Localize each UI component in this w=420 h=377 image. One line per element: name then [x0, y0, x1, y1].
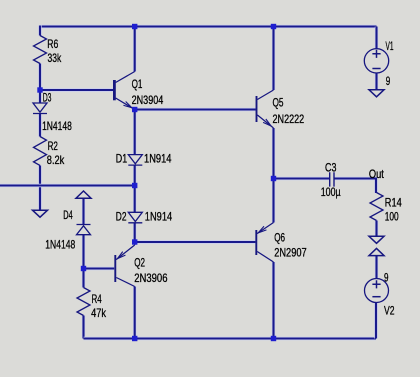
diode D2 1N914 [128, 212, 142, 223]
ground at D4 (rotated) [76, 191, 91, 198]
svg-text:V2: V2 [384, 304, 395, 318]
ground at R2 [33, 210, 48, 217]
wire Q1 emitter to D1 [133, 110, 136, 155]
wire Q6 collector [272, 262, 275, 339]
wire V2 top to ground [375, 256, 378, 279]
wire D2 to node B [133, 223, 136, 242]
svg-text:Q2: Q2 [134, 255, 145, 269]
node Q6 collector / bottom rail [271, 336, 276, 341]
wire input line [0, 184, 135, 187]
wire V1 bottom to ground [375, 73, 378, 90]
svg-text:2N3904: 2N3904 [132, 93, 164, 107]
svg-text:9: 9 [384, 270, 389, 284]
ground at R14 [369, 236, 384, 243]
resistor R6 33k [34, 36, 47, 64]
wire Q6 base [135, 240, 256, 243]
resistor R2 8.2k [34, 137, 47, 166]
svg-text:1N4148: 1N4148 [42, 119, 72, 133]
transistor Q6 2N2907 PNP [256, 223, 273, 263]
diode D4 1N4148 [77, 225, 91, 235]
svg-text:R4: R4 [92, 292, 102, 306]
wire V2 bottom lead [374, 302, 377, 338]
node Q1 emitter / D1 / Q5 base [132, 107, 137, 112]
wire R4 to bottom rail [82, 316, 85, 339]
node D3 / Q1 base [37, 87, 42, 92]
svg-text:C3: C3 [325, 161, 337, 175]
transistor Q5 2N2222 NPN [257, 90, 274, 128]
wire node A to R4 [82, 269, 85, 288]
node top rail / Q1 collector [132, 24, 137, 29]
wire D4 to node A [82, 235, 85, 269]
node top rail / Q5 collector [271, 24, 276, 29]
diode D1 1N914 [128, 155, 142, 166]
resistor R4 47k [77, 288, 90, 316]
transistor Q1 2N3904 NPN [114, 72, 134, 110]
svg-text:D3: D3 [43, 91, 52, 105]
wire Q1 collector [133, 27, 136, 72]
svg-text:Q1: Q1 [132, 77, 143, 91]
wire R6 bottom to D3 [38, 64, 41, 104]
svg-text:47k: 47k [91, 306, 107, 320]
resistor R14 100 [370, 193, 383, 221]
voltage source V2 9V [365, 279, 389, 303]
svg-text:Out: Out [369, 167, 384, 181]
wire R6 top lead [38, 26, 41, 36]
svg-text:Q5: Q5 [273, 95, 284, 109]
diode D3 1N4148 [33, 103, 47, 114]
svg-text:R2: R2 [48, 139, 59, 153]
svg-text:100µ: 100µ [321, 185, 341, 199]
svg-text:2N2907: 2N2907 [274, 245, 307, 259]
svg-text:Q6: Q6 [274, 230, 285, 244]
wire Q5 collector [272, 27, 275, 91]
svg-text:V1: V1 [386, 39, 394, 53]
svg-text:D4: D4 [63, 208, 73, 222]
node input / D1-D2 [132, 183, 137, 188]
node Q2 collector / bottom rail [132, 336, 137, 341]
svg-text:8.2k: 8.2k [47, 153, 65, 167]
svg-text:1N4148: 1N4148 [45, 237, 75, 251]
svg-text:2N3906: 2N3906 [134, 271, 168, 285]
wire output node to C3 [274, 177, 330, 180]
transistor Q2 2N3906 PNP [115, 242, 134, 287]
wire Q2 collector [133, 287, 136, 339]
wire Q1 base [40, 88, 113, 91]
wire Q2 base [84, 267, 115, 270]
svg-text:R6: R6 [47, 37, 58, 51]
svg-text:R14: R14 [385, 196, 402, 210]
svg-text:1N914: 1N914 [144, 152, 172, 166]
wire Q6 emitter to output [272, 179, 275, 223]
node A D4 / Q2 base / R4 [81, 266, 86, 271]
wire Q5 emitter to output [272, 128, 275, 179]
node B D2 / Q2 emitter / Q6 base [132, 239, 137, 244]
wire Q5 base [135, 108, 256, 111]
ground at V2 (rotated) [369, 248, 384, 255]
ground at V1 [369, 90, 384, 97]
svg-text:1N914: 1N914 [145, 209, 173, 223]
wire R14 bottom to ground [375, 221, 378, 237]
wire V1 top lead [375, 27, 378, 49]
svg-text:9: 9 [386, 74, 391, 88]
svg-text:D2: D2 [116, 209, 127, 223]
wire R2 bottom to ground [38, 166, 41, 211]
capacitor C3 100u [330, 172, 334, 186]
wire C3 to Out corner [334, 179, 376, 194]
wire bottom rail V- [84, 337, 377, 340]
svg-text:D1: D1 [116, 152, 128, 166]
wire D4 ground to D4 [82, 198, 85, 225]
wire D1 to input node [133, 165, 136, 212]
voltage source V1 9V [364, 49, 388, 73]
node output Q5/Q6 emitters [271, 176, 276, 181]
svg-text:2N2222: 2N2222 [273, 112, 305, 126]
wire D3 to R2 [38, 114, 41, 137]
wire top rail V+ [40, 25, 377, 28]
svg-text:100: 100 [385, 210, 399, 224]
svg-text:33k: 33k [48, 51, 62, 65]
